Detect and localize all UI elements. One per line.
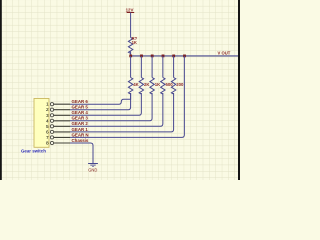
svg-text:GEAR 1: GEAR 1 <box>72 127 89 132</box>
wire 4K down to pin2 row <box>70 93 131 110</box>
junction dot 1 <box>129 55 132 58</box>
wire 12V to R? <box>130 13 132 38</box>
junction dot 5 <box>172 55 175 58</box>
connector body Gear switch <box>34 99 49 148</box>
pin 1 <box>54 103 71 105</box>
wire pin8 Chassis to GND <box>70 143 93 163</box>
sheet left border <box>0 0 2 180</box>
wire 1K down to pin4 row <box>70 93 152 121</box>
wire 200 down to pin6 row <box>70 93 174 132</box>
wire 2K down to pin3 row <box>70 93 141 115</box>
wire bus to resistor 500 <box>162 56 164 78</box>
svg-text:1: 1 <box>46 102 49 107</box>
power port 12V bar symbol <box>127 12 135 14</box>
svg-text:7: 7 <box>46 135 49 140</box>
pin 7 <box>54 136 71 138</box>
svg-text:1K: 1K <box>155 82 161 87</box>
svg-text:GEAR 3: GEAR 3 <box>72 116 89 121</box>
svg-text:GND: GND <box>88 167 97 172</box>
resistor 500 <box>161 78 165 95</box>
ground <box>88 163 98 165</box>
pin 3 <box>54 114 71 116</box>
wire bus to resistor 1K <box>151 56 153 78</box>
resistor 200 <box>171 78 175 95</box>
wire R? to bus <box>130 52 132 56</box>
resistor 2K <box>139 78 143 95</box>
pin 5 <box>54 125 71 127</box>
pin 6 <box>54 131 71 133</box>
svg-text:GEAR N: GEAR N <box>72 132 89 137</box>
resistor R? 1K <box>128 38 132 54</box>
sheet background <box>0 0 240 180</box>
junction dot 4 <box>162 55 165 58</box>
svg-text:6: 6 <box>46 129 49 134</box>
svg-text:3: 3 <box>46 113 49 118</box>
svg-text:GEAR 4: GEAR 4 <box>72 110 89 115</box>
svg-text:5: 5 <box>46 124 49 129</box>
wire pin1 riser to 4K column <box>70 93 131 104</box>
svg-text:Gear switch: Gear switch <box>21 149 46 154</box>
svg-text:4: 4 <box>46 118 49 123</box>
bus wire V OUT <box>131 55 238 57</box>
svg-text:GEAR 2: GEAR 2 <box>72 121 89 126</box>
svg-text:4K: 4K <box>133 82 139 87</box>
pin 2 <box>54 109 71 111</box>
junction dot 2 <box>140 55 143 58</box>
wire bus to resistor 200 <box>173 56 175 78</box>
wire 500 down to pin5 row <box>70 93 163 126</box>
svg-text:GEAR 6: GEAR 6 <box>72 99 89 104</box>
resistor 1K <box>150 78 154 95</box>
wire bus direct to pin7 row GEAR N <box>70 56 184 137</box>
svg-text:2: 2 <box>46 107 49 112</box>
wire bus to resistor 4K <box>130 56 132 78</box>
resistor 4K <box>128 78 132 95</box>
pin 8 <box>54 142 71 144</box>
svg-text:12V: 12V <box>126 7 134 12</box>
svg-text:2K: 2K <box>144 82 150 87</box>
svg-text:GEAR 5: GEAR 5 <box>72 105 89 110</box>
junction dot 6 <box>183 55 186 58</box>
sheet right border <box>238 0 240 180</box>
svg-text:V OUT: V OUT <box>218 50 231 55</box>
svg-text:200: 200 <box>176 82 184 87</box>
svg-text:1K: 1K <box>132 40 137 45</box>
svg-text:Chassis: Chassis <box>72 138 89 143</box>
wire bus to resistor 2K <box>140 56 142 78</box>
junction dot 3 <box>151 55 154 58</box>
pin 4 <box>54 120 71 122</box>
svg-text:8: 8 <box>46 141 49 146</box>
